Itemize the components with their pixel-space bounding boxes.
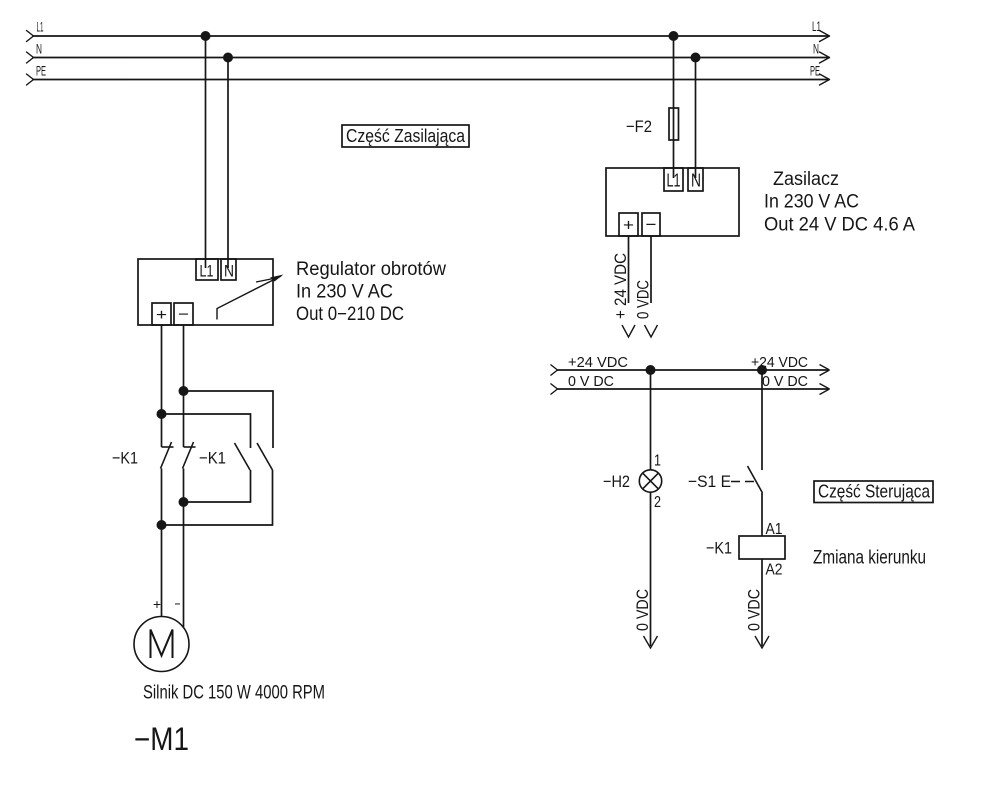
NC contact K1 no.1 xyxy=(161,442,174,469)
svg-text:A2: A2 xyxy=(766,562,783,579)
svg-text:L1: L1 xyxy=(812,18,821,34)
psu terminal minus xyxy=(642,213,660,236)
wire N bus to psu xyxy=(695,58,697,179)
wire NO4 lower to cross xyxy=(162,470,273,525)
svg-text:In 230 V AC: In 230 V AC xyxy=(296,282,393,303)
svg-text:Out 0−210 DC: Out 0−210 DC xyxy=(296,304,404,325)
wire lamp H2 to 0VDC xyxy=(650,492,652,646)
svg-text:+ 24 VDC: + 24 VDC xyxy=(611,253,630,319)
svg-text:N: N xyxy=(224,262,234,281)
psu terminal plus xyxy=(619,213,638,236)
power supply box Zasilacz xyxy=(606,168,739,236)
off-page arrow +24VDC xyxy=(622,325,635,337)
svg-text:N: N xyxy=(36,41,42,57)
wire cross top to NO contact 3 xyxy=(162,414,251,448)
bus L1 top xyxy=(27,31,830,42)
NO contact K1 no.3 blade xyxy=(235,443,251,470)
regulator terminal minus xyxy=(174,303,193,325)
svg-text:−K1: −K1 xyxy=(112,449,138,468)
svg-text:−S1 E: −S1 E xyxy=(688,472,731,491)
leader arrow to regulator text xyxy=(217,275,284,320)
svg-text:+: + xyxy=(623,216,634,235)
regulator terminal plus xyxy=(152,303,171,325)
svg-text:Zmiana kierunku: Zmiana kierunku xyxy=(813,548,926,569)
off-page arrow 0VDC xyxy=(645,325,658,337)
svg-text:N: N xyxy=(813,41,819,57)
wire psu plus output xyxy=(628,236,630,303)
svg-text:−: − xyxy=(178,307,189,324)
svg-text:+: + xyxy=(156,307,167,324)
regulator terminal L1 xyxy=(196,259,218,281)
NO contact K1 no.4 blade xyxy=(257,443,273,470)
svg-text:−: − xyxy=(646,215,657,234)
junction dot N/regulator xyxy=(223,53,233,63)
wire switch S1 to coil K1 xyxy=(761,493,763,536)
bus N top xyxy=(27,52,830,63)
wire L1 bus to fuse and psu xyxy=(673,36,675,178)
junction dot S1 branch xyxy=(757,365,767,375)
frame label Czesc Zasilajaca xyxy=(342,125,469,147)
svg-text:L1: L1 xyxy=(200,262,214,281)
bus 0VDC mid xyxy=(551,384,830,395)
svg-text:−: − xyxy=(175,596,181,612)
svg-text:Zasilacz: Zasilacz xyxy=(773,169,839,190)
bus +24VDC mid xyxy=(551,365,830,376)
svg-text:Regulator obrotów: Regulator obrotów xyxy=(296,259,446,280)
regulator description text xyxy=(296,259,446,325)
junction dot NO4/plus line xyxy=(157,520,167,530)
switch S1 contact blade xyxy=(748,466,763,493)
svg-text:+24 VDC: +24 VDC xyxy=(568,354,628,371)
svg-text:PE: PE xyxy=(810,63,820,79)
bus PE top xyxy=(27,74,830,85)
psu description text xyxy=(764,169,915,236)
svg-text:Out 24 V DC 4.6 A: Out 24 V DC 4.6 A xyxy=(764,215,915,236)
junction dot NO3/minus line xyxy=(179,497,189,507)
svg-text:0 V DC: 0 V DC xyxy=(568,373,614,390)
svg-text:−F2: −F2 xyxy=(626,117,652,136)
wire cross top to NO contact 4 xyxy=(184,391,274,448)
wire L1 bus to regulator xyxy=(205,36,207,268)
junction dot L1/fuse xyxy=(669,31,679,41)
frame label Czesc Sterujaca xyxy=(814,481,933,503)
switch S1 actuator dashed link xyxy=(731,481,757,483)
off-page arrow below H2 xyxy=(644,636,658,648)
svg-text:PE: PE xyxy=(36,63,46,79)
svg-text:−K1: −K1 xyxy=(199,449,226,468)
psu terminal N xyxy=(688,168,703,191)
wire N bus to regulator xyxy=(227,58,229,269)
regulator terminal N xyxy=(221,259,236,281)
junction dot H2 branch xyxy=(646,365,656,375)
junction dot N/psu xyxy=(691,53,701,63)
svg-text:0 VDC: 0 VDC xyxy=(634,280,653,319)
junction dot plus/cross wire xyxy=(157,409,167,419)
junction dot L1/regulator xyxy=(201,31,211,41)
svg-text:In 230 V AC: In 230 V AC xyxy=(764,192,859,213)
wire bus to lamp H2 xyxy=(650,370,652,470)
NC contact K1 no.2 xyxy=(183,442,196,469)
svg-text:Część Zasilająca: Część Zasilająca xyxy=(346,126,466,146)
svg-text:0 V DC: 0 V DC xyxy=(762,373,808,390)
svg-text:L1: L1 xyxy=(37,19,44,35)
wire psu 0V output xyxy=(650,236,652,303)
svg-text:Silnik DC 150 W 4000 RPM: Silnik DC 150 W 4000 RPM xyxy=(143,683,325,704)
wire coil K1 to 0VDC xyxy=(761,559,763,646)
lamp H2 xyxy=(639,470,661,492)
svg-text:0 VDC: 0 VDC xyxy=(745,589,764,631)
svg-text:N: N xyxy=(691,171,701,191)
wire NO3 lower to cross xyxy=(184,470,251,502)
svg-text:2: 2 xyxy=(654,494,661,511)
svg-text:1: 1 xyxy=(654,453,661,470)
wire NC2 lower xyxy=(183,469,185,629)
junction dot minus/cross wire xyxy=(179,386,189,396)
svg-text:L1: L1 xyxy=(667,171,681,191)
svg-text:0 VDC: 0 VDC xyxy=(633,589,652,631)
wire NC1 lower xyxy=(161,469,163,617)
svg-text:−K1: −K1 xyxy=(706,539,732,558)
fuse F2 xyxy=(669,108,679,140)
svg-text:−M1: −M1 xyxy=(134,721,189,757)
wire bus to switch S1 xyxy=(761,370,763,470)
svg-text:Część Sterująca: Część Sterująca xyxy=(818,482,931,502)
motor M1 xyxy=(134,617,189,672)
psu terminal L1 xyxy=(664,168,683,191)
wire regulator plus down xyxy=(161,325,163,447)
regulator box U1 xyxy=(138,259,273,325)
svg-text:−H2: −H2 xyxy=(603,472,630,491)
svg-text:+: + xyxy=(153,596,161,612)
wire regulator minus down xyxy=(183,325,185,447)
coil K1 xyxy=(739,536,785,559)
off-page arrow below K1 xyxy=(755,636,769,648)
